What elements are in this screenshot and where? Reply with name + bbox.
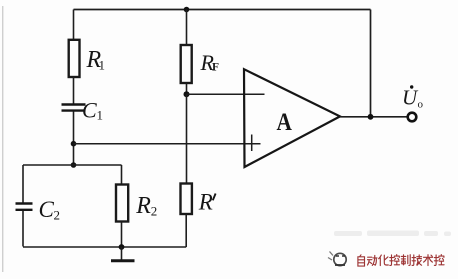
wire R' bottom to bottom rail xyxy=(185,214,187,247)
watermark icon xyxy=(328,252,346,266)
svg-text:R: R xyxy=(198,190,213,215)
wire op-amp output xyxy=(340,116,408,118)
wire bottom rail xyxy=(23,246,186,248)
wire feedback junction down to R' xyxy=(186,94,188,183)
svg-text:2: 2 xyxy=(54,208,61,223)
resistor R2 xyxy=(116,185,128,222)
wire to op-amp plus input xyxy=(74,143,261,145)
svg-text:R: R xyxy=(135,193,151,219)
svg-text:o: o xyxy=(418,99,424,111)
svg-text:1: 1 xyxy=(97,108,104,123)
svg-text:F: F xyxy=(212,62,219,74)
output terminal circle xyxy=(408,113,417,122)
watermark text: 自动化控制技术控 drawn as strokes xyxy=(358,255,444,267)
node: junction on C2 box top xyxy=(71,162,77,168)
node: feedback junction xyxy=(184,91,190,97)
ground xyxy=(121,247,123,260)
op-amp plus sign vertical stroke xyxy=(251,135,253,152)
svg-text:2: 2 xyxy=(151,204,158,219)
wire C2 box left lower xyxy=(22,211,24,247)
resistor R1 xyxy=(69,40,80,77)
wire C1 down through node to C2 box top xyxy=(73,112,75,166)
wire C2 box top xyxy=(23,164,122,166)
node: junction C1/plus-wire xyxy=(71,141,77,147)
wire left branch down to R1 xyxy=(73,10,75,41)
resistor R' xyxy=(181,184,192,215)
svg-text:1: 1 xyxy=(99,58,106,73)
wire R2 bottom xyxy=(121,222,123,248)
faded watermark band xyxy=(334,231,451,237)
wire R2 branch top xyxy=(121,165,123,185)
wire top horizontal xyxy=(74,9,371,11)
svg-text:A: A xyxy=(277,108,293,136)
wire to op-amp minus input xyxy=(187,93,265,95)
wire C2 box left upper xyxy=(22,165,24,203)
svg-text:U: U xyxy=(402,86,419,110)
node: output junction xyxy=(368,114,374,120)
node: junction top rail / RF branch xyxy=(184,7,190,13)
wire RF branch from top rail xyxy=(186,10,188,46)
node: junction bottom rail / ground xyxy=(119,244,125,250)
resistor RF xyxy=(181,45,192,83)
op-amp A triangle xyxy=(244,69,340,167)
label Uo with dot xyxy=(410,85,413,88)
wire RF bottom to junction xyxy=(186,83,188,94)
capacitor C1 xyxy=(62,105,86,111)
wire right vertical from top rail xyxy=(370,10,372,117)
svg-text:C: C xyxy=(82,98,97,123)
svg-text:C: C xyxy=(39,197,55,222)
wire R1 to C1 xyxy=(73,77,75,104)
left page edge line xyxy=(2,6,3,272)
capacitor C2 xyxy=(16,204,33,210)
